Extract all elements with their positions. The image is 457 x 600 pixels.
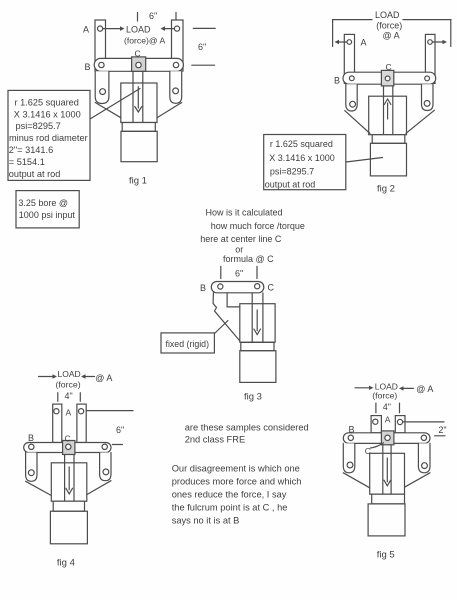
svg-text:6": 6"	[116, 425, 124, 435]
svg-text:C: C	[268, 282, 275, 292]
svg-text:A: A	[385, 415, 391, 425]
svg-text:fig 5: fig 5	[377, 549, 395, 560]
svg-text:4": 4"	[383, 402, 391, 412]
svg-text:formula @ C: formula @ C	[223, 254, 274, 264]
svg-text:r 1.625 squared: r 1.625 squared	[270, 139, 333, 149]
svg-text:A: A	[361, 38, 367, 48]
svg-text:fig 2: fig 2	[377, 184, 395, 195]
svg-text:2": 2"	[438, 425, 446, 435]
svg-text:2nd class FRE: 2nd class FRE	[185, 435, 245, 445]
svg-text:B: B	[28, 433, 34, 443]
svg-text:or: or	[235, 245, 243, 255]
svg-text:r 1.625 squared: r 1.625 squared	[15, 97, 79, 107]
svg-text:Our disagreement is which one: Our disagreement is which one	[172, 464, 300, 474]
svg-text:1000 psi input: 1000 psi input	[19, 210, 76, 220]
svg-text:C: C	[365, 446, 371, 456]
svg-text:C: C	[386, 62, 392, 72]
svg-text:How is it calculated: How is it calculated	[206, 208, 283, 218]
svg-text:how much force /torque: how much force /torque	[211, 221, 305, 231]
svg-text:C: C	[135, 49, 141, 59]
svg-text:3.25 bore @: 3.25 bore @	[18, 198, 68, 208]
svg-text:psi=8295.7: psi=8295.7	[270, 167, 314, 177]
svg-text:@ A: @ A	[383, 30, 400, 40]
svg-text:fig 3: fig 3	[244, 392, 262, 403]
svg-text:the fulcrum point is at C , he: the fulcrum point is at C , he	[172, 503, 288, 513]
svg-text:psi=8295.7: psi=8295.7	[16, 121, 61, 131]
svg-text:B: B	[85, 62, 91, 72]
svg-text:A: A	[66, 408, 72, 418]
svg-text:6": 6"	[198, 42, 206, 52]
svg-text:X 3.1416 x 1000: X 3.1416 x 1000	[269, 153, 335, 163]
svg-text:output at rod: output at rod	[9, 169, 61, 179]
svg-text:here at center line C: here at center line C	[200, 234, 282, 244]
svg-text:6": 6"	[149, 11, 157, 21]
svg-text:ones reduce the force, I say: ones reduce the force, I say	[172, 490, 287, 500]
svg-text:says no it is at B: says no it is at B	[172, 516, 240, 526]
svg-text:X 3.1416 x 1000: X 3.1416 x 1000	[14, 109, 81, 119]
svg-text:B: B	[349, 424, 355, 434]
svg-text:B: B	[334, 76, 340, 86]
svg-text:6": 6"	[235, 269, 243, 279]
svg-text:(force): (force)	[56, 380, 81, 390]
svg-text:(force): (force)	[376, 21, 402, 31]
svg-text:2"= 3141.6: 2"= 3141.6	[9, 145, 53, 155]
svg-text:are these samples considered: are these samples considered	[185, 423, 309, 433]
svg-text:fig 4: fig 4	[57, 558, 75, 569]
svg-text:= 5154.1: = 5154.1	[9, 157, 45, 167]
svg-text:(force): (force)	[372, 391, 397, 401]
svg-text:A: A	[83, 25, 89, 35]
svg-text:LOAD: LOAD	[375, 10, 400, 20]
svg-text:fig 1: fig 1	[129, 176, 147, 187]
svg-text:B: B	[200, 283, 206, 293]
svg-text:output at rod: output at rod	[265, 180, 316, 190]
svg-text:4": 4"	[65, 391, 73, 401]
svg-text:LOAD: LOAD	[126, 25, 151, 35]
svg-text:fixed (rigid): fixed (rigid)	[166, 339, 210, 349]
svg-text:(force)@ A: (force)@ A	[124, 36, 165, 46]
svg-text:C: C	[65, 434, 71, 444]
svg-text:produces more force and which: produces more force and which	[172, 477, 302, 487]
svg-text:@ A: @ A	[95, 373, 112, 383]
svg-text:@ A: @ A	[416, 384, 433, 394]
svg-text:LOAD: LOAD	[58, 369, 81, 379]
svg-text:minus rod diameter: minus rod diameter	[9, 133, 88, 143]
